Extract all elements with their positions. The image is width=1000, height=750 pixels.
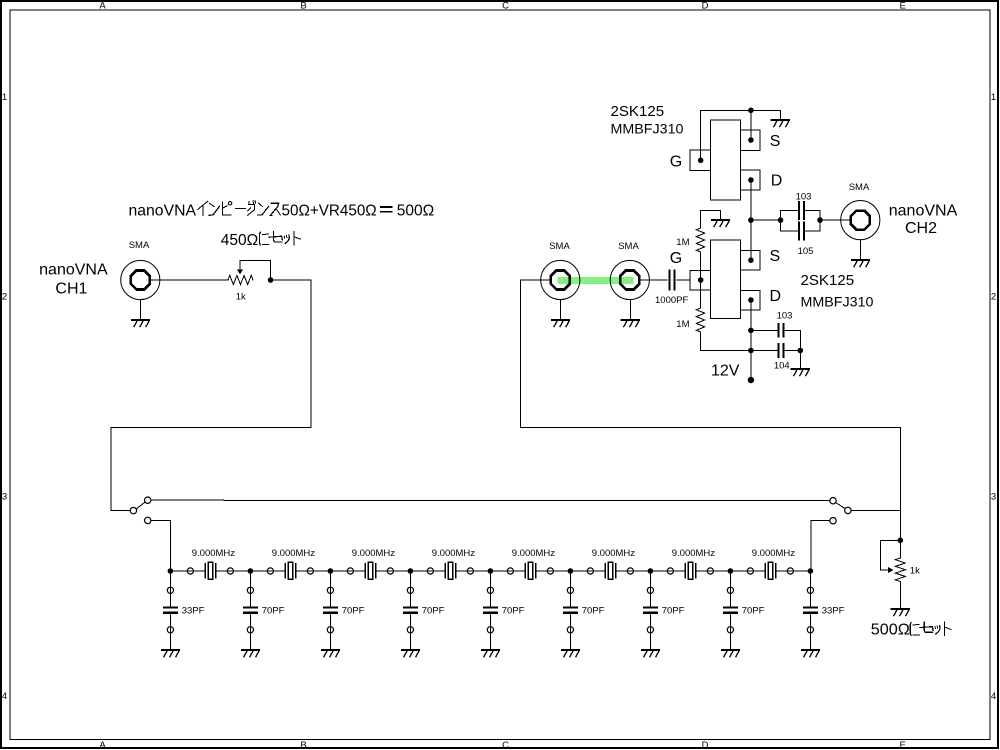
- wire shunt branch 8: [729, 571, 731, 650]
- node filter junction 3: [328, 568, 334, 574]
- pin circles shunt 5: [487, 587, 493, 633]
- wire C4 right down to C5 right: [799, 330, 801, 350]
- wire R1 top hook to ground: [701, 211, 721, 229]
- switch SW1 pole: [130, 507, 136, 513]
- label 1M (R2): [676, 319, 689, 330]
- ground filter shunt 5: [482, 650, 499, 657]
- svg-text:70PF: 70PF: [582, 606, 605, 617]
- label 1k VR1: [236, 292, 246, 303]
- label G (Q1 gate): [670, 154, 682, 171]
- pin circles X8: [747, 568, 793, 574]
- resistor R1 1M (upper): [696, 228, 704, 252]
- capacitor shunt C13 70PF: [724, 608, 737, 613]
- wire Q1 gate up to grounded rail: [701, 110, 781, 160]
- node filter junction 4: [408, 568, 414, 574]
- label 103 (C2): [796, 192, 812, 203]
- label SMA J4: [849, 182, 870, 193]
- svg-text:E: E: [900, 740, 906, 750]
- ground filter shunt 7: [642, 650, 659, 657]
- ground under J3: [622, 320, 639, 327]
- pin circles shunt 9: [807, 587, 813, 633]
- node filter junction 2: [248, 568, 254, 574]
- svg-text:S: S: [770, 248, 781, 265]
- pin circles X1: [187, 568, 233, 574]
- wire SW2 bottom throw to filter output: [811, 521, 830, 571]
- label 9.000MHz (X4): [432, 548, 476, 559]
- label 500 ohm ni setto: [871, 622, 951, 639]
- svg-text:B: B: [300, 0, 306, 11]
- svg-text:50Ω+VR450Ω: 50Ω+VR450Ω: [282, 202, 377, 219]
- wire J3 to ground: [629, 300, 631, 320]
- switch SW1 throw top: [145, 497, 151, 503]
- svg-text:E: E: [900, 0, 906, 11]
- svg-text:9.000MHz: 9.000MHz: [352, 548, 396, 559]
- label SMA J1: [129, 240, 150, 251]
- wire shunt branch 7: [649, 571, 651, 650]
- resistor R2 1M (lower): [696, 308, 704, 332]
- wire bypass line SW1 to SW2: [151, 499, 830, 502]
- capacitor shunt C9 70PF: [404, 608, 417, 613]
- ground under VR2: [892, 609, 909, 616]
- svg-text:nanoVNA: nanoVNA: [889, 203, 958, 220]
- ruler column letters bottom: [99, 740, 906, 750]
- wire C1 to Q2 gate pad: [677, 279, 690, 281]
- label 1k (VR2): [910, 566, 920, 577]
- svg-text:B: B: [300, 740, 306, 750]
- label 9.000MHz (X5): [512, 548, 556, 559]
- label 70PF: [582, 606, 605, 617]
- wire VR2 to ground: [899, 582, 901, 609]
- switch SW2 throw bottom: [830, 518, 836, 524]
- svg-text:103: 103: [777, 311, 793, 322]
- wire J3 to C1: [640, 279, 668, 281]
- label S (Q2 source): [770, 248, 781, 265]
- pin circles X6: [587, 568, 633, 574]
- switch SW2 pole: [845, 507, 851, 513]
- switch SW2 throw top: [830, 498, 836, 504]
- label 9.000MHz (X7): [672, 548, 716, 559]
- pin circles shunt 2: [247, 587, 253, 633]
- svg-text:9.000MHz: 9.000MHz: [672, 548, 716, 559]
- svg-text:2: 2: [2, 292, 7, 303]
- crystal X2 9.000MHz: [285, 562, 295, 579]
- svg-text:9.000MHz: 9.000MHz: [192, 548, 236, 559]
- svg-text:A: A: [99, 740, 106, 750]
- label SMA J3: [618, 241, 639, 252]
- svg-text:12V: 12V: [711, 363, 740, 380]
- Q1 source pad: [741, 130, 761, 150]
- label 70PF: [742, 606, 765, 617]
- ground top rail: [772, 120, 789, 127]
- ground filter shunt 2: [242, 650, 259, 657]
- svg-text:70PF: 70PF: [662, 606, 685, 617]
- svg-text:104: 104: [774, 360, 790, 371]
- svg-text:33PF: 33PF: [182, 606, 205, 617]
- wire shunt branch 1: [169, 571, 171, 650]
- SMA connector J2 (test fixture left): [541, 260, 580, 299]
- crystal X5 9.000MHz: [525, 562, 535, 579]
- crystal X1 9.000MHz: [205, 562, 215, 579]
- wire down to ground: [799, 351, 801, 369]
- label nanoVNA CH1: [39, 262, 108, 298]
- crystal X4 9.000MHz: [445, 562, 455, 579]
- svg-text:70PF: 70PF: [262, 606, 285, 617]
- wire to J4: [820, 219, 850, 221]
- svg-text:1000PF: 1000PF: [655, 295, 688, 306]
- svg-text:G: G: [670, 250, 682, 267]
- wire output node to C2/C3 pair: [751, 219, 781, 221]
- svg-text:4: 4: [2, 691, 7, 702]
- wire J4 to ground: [860, 240, 862, 260]
- svg-text:70PF: 70PF: [342, 606, 365, 617]
- potentiometer VR2 1k (500 ohm set): [881, 540, 906, 581]
- svg-text:2: 2: [991, 292, 996, 303]
- capacitor C5 104: [753, 344, 800, 357]
- svg-text:G: G: [670, 154, 682, 171]
- pin circles shunt 1: [167, 587, 173, 633]
- junction drain/C4: [748, 328, 754, 334]
- wire J2 to ground: [560, 300, 562, 320]
- pin circles shunt 7: [647, 587, 653, 633]
- capacitor shunt C14 33PF: [804, 608, 817, 613]
- svg-text:9.000MHz: 9.000MHz: [512, 548, 556, 559]
- switch SW2 blade: [836, 503, 846, 509]
- capacitor shunt C12 70PF: [644, 608, 657, 613]
- junction C5 right: [798, 348, 804, 354]
- svg-text:D: D: [770, 288, 782, 305]
- svg-text:1M: 1M: [676, 319, 689, 330]
- svg-text:9.000MHz: 9.000MHz: [592, 548, 636, 559]
- svg-text:A: A: [99, 0, 106, 11]
- ground under J1: [132, 320, 149, 327]
- svg-text:MMBFJ310: MMBFJ310: [611, 121, 684, 137]
- crystal X6 9.000MHz: [605, 562, 615, 579]
- Q2 source pad: [741, 251, 761, 271]
- crystal X7 9.000MHz: [685, 562, 695, 579]
- svg-text:C: C: [502, 0, 509, 11]
- label 103 (C4): [777, 311, 793, 322]
- label S (Q1 source): [770, 133, 781, 150]
- ground filter shunt 9: [802, 650, 819, 657]
- label G (Q2 gate): [670, 250, 682, 267]
- SMA connector J1 (nanoVNA CH1): [121, 260, 160, 299]
- wire rail to Q1 source: [750, 110, 752, 140]
- svg-text:SMA: SMA: [129, 240, 150, 251]
- ruler column letters top: [99, 0, 906, 11]
- svg-text:SMA: SMA: [618, 241, 639, 252]
- svg-text:1k: 1k: [910, 566, 920, 577]
- svg-text:CH1: CH1: [55, 281, 87, 298]
- junction VR1 wiper node: [268, 277, 274, 283]
- pin circles shunt 6: [567, 587, 573, 633]
- crystal X8 9.000MHz: [765, 562, 775, 579]
- label 1000PF: [655, 295, 688, 306]
- svg-text:nanoVNA: nanoVNA: [129, 202, 197, 219]
- label 33PF: [822, 606, 845, 617]
- pin circles X5: [507, 568, 553, 574]
- svg-text:4: 4: [991, 691, 996, 702]
- svg-text:500Ω: 500Ω: [871, 622, 910, 639]
- svg-text:9.000MHz: 9.000MHz: [272, 548, 316, 559]
- ground filter shunt 1: [162, 650, 179, 657]
- node filter junction 6: [568, 568, 574, 574]
- label 70PF: [342, 606, 365, 617]
- label 104 (C5): [774, 360, 790, 371]
- Q2 gate pad: [690, 271, 710, 291]
- node filter junction 7: [648, 568, 654, 574]
- svg-text:nanoVNA: nanoVNA: [39, 262, 108, 279]
- Q1 gate pad: [690, 150, 710, 171]
- wire shunt branch 9: [809, 571, 811, 650]
- pin circles shunt 8: [727, 587, 733, 633]
- crystal X3 9.000MHz: [365, 562, 375, 579]
- capacitor C1 1000PF: [670, 271, 675, 290]
- label 9.000MHz (X8): [752, 548, 796, 559]
- wire R2 bottom to 12V rail: [701, 332, 751, 351]
- label 9.000MHz (X6): [592, 548, 636, 559]
- svg-text:70PF: 70PF: [742, 606, 765, 617]
- junction C2/C3 left: [778, 217, 784, 223]
- SMA connector J3 (test fixture right): [610, 260, 649, 299]
- label 105 (C3): [798, 246, 814, 257]
- label nanoVNA CH2: [889, 203, 958, 238]
- svg-text:70PF: 70PF: [502, 606, 525, 617]
- wire shunt branch 4: [409, 571, 411, 650]
- capacitor shunt C8 70PF: [324, 608, 337, 613]
- wire Q1 drain to Q2 source: [750, 180, 752, 260]
- label 9.000MHz (X1): [192, 548, 236, 559]
- svg-text:S: S: [770, 133, 781, 150]
- label 70PF: [662, 606, 685, 617]
- ground filter shunt 8: [722, 650, 739, 657]
- wire filter top rail: [170, 570, 810, 572]
- wire J1 to VR1: [151, 279, 229, 281]
- label 9.000MHz (X3): [352, 548, 396, 559]
- svg-text:1k: 1k: [236, 292, 246, 303]
- pin circles X2: [267, 568, 313, 574]
- wire shunt branch 5: [489, 571, 491, 650]
- svg-text:SMA: SMA: [849, 182, 870, 193]
- ground filter shunt 3: [322, 650, 339, 657]
- svg-text:MMBFJ310: MMBFJ310: [801, 294, 874, 310]
- svg-text:1: 1: [2, 92, 7, 103]
- label 2SK125 MMBFJ310 (Q2): [801, 272, 874, 310]
- svg-text:D: D: [771, 173, 783, 190]
- svg-text:SMA: SMA: [549, 241, 570, 252]
- terminal 12V supply: [748, 377, 754, 383]
- green coax link between J2 and J3: [557, 277, 633, 284]
- svg-text:D: D: [702, 740, 709, 750]
- pin circles X3: [347, 568, 393, 574]
- svg-text:450Ω: 450Ω: [221, 232, 259, 249]
- junction 12V rail: [748, 348, 754, 354]
- capacitor shunt C6 33PF: [164, 608, 177, 613]
- ground under C5: [792, 369, 809, 376]
- svg-text:33PF: 33PF: [822, 606, 845, 617]
- pin circles X4: [427, 568, 473, 574]
- label D (Q2 drain): [770, 288, 782, 305]
- ground under J4: [852, 260, 869, 267]
- junction D1/S2 output node: [748, 217, 754, 223]
- ruler row numbers left: [2, 92, 7, 702]
- junction C2/C3 right: [817, 217, 823, 223]
- capacitor shunt C7 70PF: [244, 608, 257, 613]
- ruler row numbers right: [991, 92, 996, 702]
- switch SW1 throw bottom: [145, 517, 151, 523]
- transistor Q1 2SK125 body: [710, 120, 740, 200]
- junction VR2 top: [898, 538, 904, 544]
- node filter junction 8: [728, 568, 734, 574]
- svg-text:1: 1: [991, 92, 996, 103]
- Q1 drain pad: [741, 170, 761, 190]
- svg-text:C: C: [502, 740, 509, 750]
- label 33PF: [182, 606, 205, 617]
- svg-text:CH2: CH2: [905, 220, 937, 237]
- label 70PF: [262, 606, 285, 617]
- capacitor C3 105 (bottom of pair): [781, 220, 821, 239]
- svg-text:3: 3: [2, 492, 7, 503]
- svg-text:2SK125: 2SK125: [611, 103, 665, 120]
- capacitor C2 103 (top of pair): [781, 202, 821, 220]
- switch SW1 blade: [136, 502, 145, 509]
- wire shunt branch 6: [569, 571, 571, 650]
- node filter junction 5: [488, 568, 494, 574]
- wire shunt branch 2: [249, 571, 251, 650]
- title nanoVNA impedance 50+VR450=500 ohm: [129, 201, 435, 220]
- ground under J2: [552, 320, 569, 327]
- capacitor shunt C10 70PF: [484, 608, 497, 613]
- svg-text:105: 105: [798, 246, 814, 257]
- label 450 ohm ni setto: [221, 232, 301, 249]
- ground R1 top: [712, 220, 729, 227]
- svg-text:500Ω: 500Ω: [397, 202, 434, 219]
- ground filter shunt 6: [562, 650, 579, 657]
- wire shunt branch 3: [329, 571, 331, 650]
- wire SW2 pole to right rail: [851, 509, 900, 511]
- pin circles shunt 3: [327, 587, 333, 633]
- label SMA J2: [549, 241, 570, 252]
- wire left down to y427 rail: [520, 280, 900, 558]
- label 9.000MHz (X2): [272, 548, 316, 559]
- Q2 drain pad: [741, 290, 761, 310]
- label 12V: [711, 363, 740, 380]
- label 70PF: [502, 606, 525, 617]
- junction top rail / Q1 source: [748, 108, 754, 114]
- wire J1 to ground: [140, 300, 142, 320]
- label D (Q1 drain): [771, 173, 783, 190]
- wire R1 to Q2 gate to R2: [700, 252, 702, 308]
- wire Q2 drain down to 12V terminal: [750, 300, 752, 380]
- node filter junction 1: [168, 568, 174, 574]
- transistor Q2 2SK125 body: [710, 240, 740, 318]
- svg-text:70PF: 70PF: [422, 606, 445, 617]
- label 2SK125 MMBFJ310 (Q1): [611, 103, 684, 137]
- pin circles X7: [667, 568, 713, 574]
- svg-text:9.000MHz: 9.000MHz: [432, 548, 476, 559]
- capacitor shunt C11 70PF: [564, 608, 577, 613]
- ground filter shunt 4: [402, 650, 419, 657]
- svg-text:9.000MHz: 9.000MHz: [752, 548, 796, 559]
- svg-text:D: D: [702, 0, 709, 11]
- svg-text:2SK125: 2SK125: [801, 272, 855, 289]
- pin circles shunt 4: [407, 587, 413, 633]
- label 70PF: [422, 606, 445, 617]
- node filter junction 9: [808, 568, 814, 574]
- wire VR1 node down-left to switch SW1: [111, 280, 311, 511]
- svg-text:103: 103: [796, 192, 812, 203]
- wire SW1 bottom throw to filter input: [151, 520, 171, 571]
- svg-text:1M: 1M: [676, 237, 689, 248]
- capacitor C4 103: [753, 324, 800, 337]
- svg-text:3: 3: [991, 492, 996, 503]
- potentiometer VR1 1k (450 ohm set): [228, 261, 271, 285]
- SMA connector J4 (nanoVNA CH2): [841, 201, 880, 240]
- label 1M (R1): [676, 237, 689, 248]
